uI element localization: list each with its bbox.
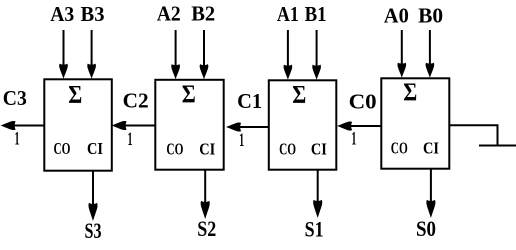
wire+arrow input A0 xyxy=(397,30,406,78)
carry wire+arrow C2 (FA2 CO to FA3 CI) xyxy=(112,121,156,130)
svg-text:CO: CO xyxy=(391,139,408,158)
svg-text:CI: CI xyxy=(311,140,327,159)
wire+arrow input B1 xyxy=(312,30,321,80)
svg-text:S2: S2 xyxy=(197,216,216,241)
carry wire+arrow C0 (FA0 CO to FA1 CI) xyxy=(337,121,381,130)
svg-text:B1: B1 xyxy=(305,2,327,26)
sum output wire+arrow S1 xyxy=(313,170,322,218)
svg-text:B0: B0 xyxy=(418,4,443,28)
wire+arrow input B3 xyxy=(87,30,96,79)
ground symbol xyxy=(479,145,516,147)
svg-text:S0: S0 xyxy=(416,216,436,241)
svg-text:CI: CI xyxy=(87,139,103,158)
svg-text:A0: A0 xyxy=(384,4,409,28)
svg-text:1: 1 xyxy=(15,129,20,150)
svg-text:C3: C3 xyxy=(3,86,27,110)
svg-text:A1: A1 xyxy=(277,2,299,26)
svg-text:C2: C2 xyxy=(123,88,149,112)
full adder FA1 box xyxy=(269,80,337,169)
svg-text:CI: CI xyxy=(423,139,439,158)
svg-text:1: 1 xyxy=(239,130,244,151)
svg-text:CO: CO xyxy=(166,140,183,159)
svg-text:S3: S3 xyxy=(85,218,102,243)
svg-text:A3: A3 xyxy=(50,2,74,26)
full adder FA0 box xyxy=(381,78,449,168)
full adder FA3 box xyxy=(44,79,112,170)
svg-text:Σ: Σ xyxy=(292,81,306,108)
sum output wire+arrow S3 xyxy=(88,170,97,221)
wire+arrow input B2 xyxy=(200,30,209,79)
svg-text:CI: CI xyxy=(199,140,215,159)
wire+arrow input B0 xyxy=(426,30,435,78)
svg-text:A2: A2 xyxy=(157,2,181,26)
sum output wire+arrow S2 xyxy=(201,170,210,219)
full adder FA2 box xyxy=(155,80,223,170)
svg-text:CO: CO xyxy=(54,139,71,158)
carry wire+arrow C1 (FA1 CO to FA2 CI) xyxy=(226,122,269,131)
svg-text:C1: C1 xyxy=(237,89,262,113)
svg-text:B2: B2 xyxy=(191,2,215,26)
svg-text:1: 1 xyxy=(128,129,133,150)
wire+arrow input A3 xyxy=(59,30,68,79)
sum output wire+arrow S0 xyxy=(426,169,435,218)
svg-text:C0: C0 xyxy=(349,90,377,114)
svg-text:1: 1 xyxy=(351,129,356,150)
wire+arrow input A1 xyxy=(284,30,293,80)
svg-text:S1: S1 xyxy=(305,216,324,241)
svg-text:Σ: Σ xyxy=(403,79,417,106)
svg-text:CO: CO xyxy=(279,140,296,159)
svg-text:Σ: Σ xyxy=(182,81,196,108)
svg-text:B3: B3 xyxy=(81,2,105,26)
wire from FA0 CI to ground xyxy=(449,125,498,145)
carry-out wire+arrow C3 (leftmost, exits FA3) xyxy=(1,121,45,130)
svg-text:Σ: Σ xyxy=(68,81,82,108)
wire+arrow input A2 xyxy=(171,30,180,79)
